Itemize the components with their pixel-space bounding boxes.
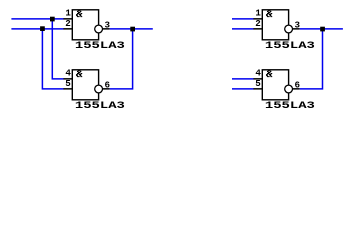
- wire: branch from upper net down and over to pin 4: [52, 19, 63, 79]
- wire: output net of DD1.1 to the right: [110, 28, 153, 30]
- pin 5 stub of DD1.2: [63, 88, 72, 90]
- pin 5 stub of DD2.2: [253, 88, 262, 90]
- pin 3 stub of DD2.1: [293, 28, 300, 30]
- junction: output tie dot left circuit: [130, 27, 135, 32]
- svg-text:3: 3: [295, 20, 301, 31]
- svg-text:4: 4: [65, 68, 71, 79]
- wire: right circuit input stub pin 5: [232, 88, 254, 90]
- svg-text:1: 1: [255, 8, 261, 19]
- pin 1 stub of DD2.1: [253, 18, 262, 20]
- label: & function symbol of DD1.1: [76, 10, 82, 17]
- logic gate U4: DD2.2 155LA3 body: [262, 70, 288, 100]
- pin 1 stub of DD1.1: [63, 18, 72, 20]
- logic gate U3: DD2.1 155LA3 body: [262, 10, 288, 40]
- wire: right circuit input stub pin 2: [232, 28, 254, 30]
- label: & function symbol of DD2.1: [266, 10, 272, 17]
- logic gate U2: DD1.2 155LA3 body: [72, 70, 98, 100]
- inversion bubble of DD2.1 output: [285, 25, 293, 33]
- wire: tie of DD2.2 output up to output net: [300, 29, 323, 89]
- pin 2 stub of DD2.1: [253, 28, 262, 30]
- wire: tie of DD1.2 output up to output net: [110, 29, 133, 89]
- pin 6 stub of DD2.2: [293, 88, 300, 90]
- pin 4 stub of DD1.2: [63, 78, 72, 80]
- inversion bubble of DD1.2 output: [95, 85, 103, 93]
- svg-text:6: 6: [105, 80, 111, 91]
- pin 3 stub of DD1.1: [103, 28, 110, 30]
- pin 2 stub of DD1.1: [63, 28, 72, 30]
- svg-text:2: 2: [65, 18, 71, 29]
- svg-text:155LA3: 155LA3: [75, 41, 125, 52]
- junction: output tie dot right circuit: [320, 27, 325, 32]
- wire: branch from lower net down and over to pin 5: [42, 29, 63, 89]
- svg-text:155LA3: 155LA3: [265, 41, 315, 52]
- wire: output net of DD2.1 to right edge: [300, 28, 343, 30]
- inversion bubble of DD2.2 output: [285, 85, 293, 93]
- svg-text:5: 5: [65, 78, 71, 89]
- label: & function symbol of DD1.2: [76, 70, 82, 77]
- inversion bubble of DD1.1 output: [95, 25, 103, 33]
- junction: lower net branch dot: [40, 26, 45, 31]
- junction: upper net branch dot: [50, 17, 55, 22]
- svg-text:2: 2: [255, 18, 261, 29]
- wire: left circuit lower input net to pin 2: [11, 28, 63, 30]
- label: & function symbol of DD2.2: [266, 70, 272, 77]
- wire: right circuit input stub pin 4: [232, 78, 254, 80]
- svg-text:4: 4: [255, 68, 261, 79]
- svg-text:155LA3: 155LA3: [265, 101, 315, 112]
- svg-text:1: 1: [65, 8, 71, 19]
- wire: left circuit upper input net to pin 1: [11, 18, 63, 20]
- svg-text:155LA3: 155LA3: [75, 101, 125, 112]
- svg-text:5: 5: [255, 78, 261, 89]
- pin 4 stub of DD2.2: [253, 78, 262, 80]
- svg-text:3: 3: [105, 20, 111, 31]
- logic gate U1: DD1.1 155LA3 body: [72, 10, 98, 40]
- pin 6 stub of DD1.2: [103, 88, 110, 90]
- wire: right circuit input stub pin 1: [232, 18, 254, 20]
- svg-text:6: 6: [295, 80, 301, 91]
